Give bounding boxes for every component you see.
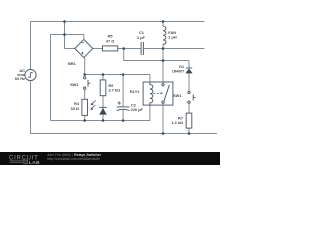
svg-text:http://circuitlab.com/chs86sm4: http://circuitlab.com/chs86sm4k6x [47,157,100,161]
svg-text:D1: D1 [179,64,185,69]
svg-text:1N4007: 1N4007 [172,69,185,73]
svg-text:47 Ω: 47 Ω [106,38,115,43]
svg-text:RLY1: RLY1 [130,89,140,94]
svg-text:1.3 kΩ: 1.3 kΩ [171,120,183,125]
svg-text:SW1: SW1 [173,93,182,98]
svg-text:LAB: LAB [29,160,40,165]
svg-text:1 μH: 1 μH [168,35,177,40]
svg-text:1 μF: 1 μF [137,35,146,40]
svg-text:BR1: BR1 [68,61,77,66]
svg-text:3.7 kΩ: 3.7 kΩ [108,87,120,92]
svg-text:220 μF: 220 μF [131,107,144,112]
svg-text:33 Ω: 33 Ω [70,106,79,111]
svg-text:60 Hz: 60 Hz [15,76,25,81]
svg-text:SW2: SW2 [70,82,79,87]
